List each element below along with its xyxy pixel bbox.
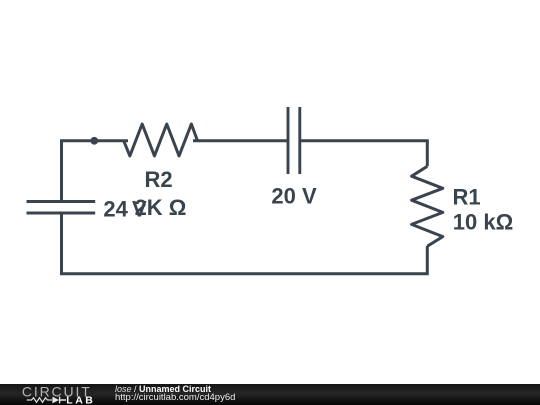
capacitor C1 bottom plate (27, 212, 96, 215)
wire: C2 to right rail with corner down to R1 (300, 141, 428, 167)
capacitor C2 right plate (298, 107, 301, 174)
svg-text:R1: R1 (453, 185, 481, 210)
resistor R2 zigzag (124, 124, 198, 156)
svg-text:10 kΩ: 10 kΩ (453, 210, 513, 235)
capacitor C2 left plate (287, 107, 290, 174)
footer bar (0, 384, 540, 405)
svg-text:R2: R2 (144, 167, 172, 192)
wire: bottom rail from R1 down, across bottom, up left to C1 bottom plate (62, 212, 428, 274)
resistor R1 zigzag (412, 166, 443, 246)
svg-text:LAB: LAB (66, 395, 95, 405)
capacitor C1 top plate (27, 200, 96, 203)
svg-text:20 V: 20 V (271, 184, 317, 209)
footer caption line 1 (115, 385, 211, 395)
logo diode bar and tail wire (60, 397, 66, 404)
logo resistor squiggle (27, 398, 52, 402)
footer caption line 2 (115, 393, 235, 403)
node A junction dot (90, 137, 98, 145)
logo diode symbol (52, 397, 59, 404)
wire: top-left horizontal from left rail to R2, with corner down left rail (62, 141, 129, 203)
wire: R2 to capacitor C2 (193, 139, 288, 142)
CircuitLab logo (0, 0, 110, 405)
